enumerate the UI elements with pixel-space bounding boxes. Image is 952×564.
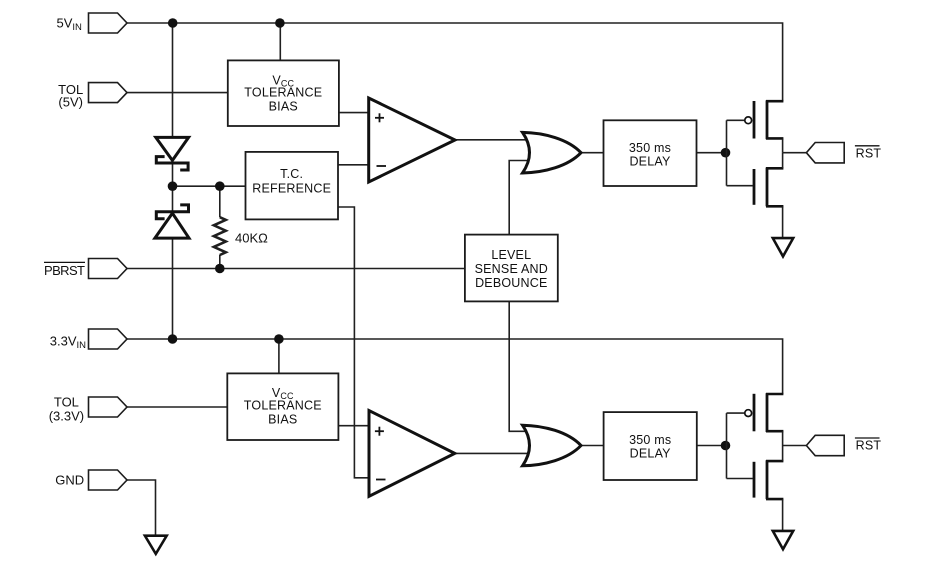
wire resistor top lead (219, 186, 221, 217)
wire vcc bias 2 top feed (278, 339, 280, 373)
resistor 40K zigzag (214, 217, 226, 255)
block B3 level sense and debounce (465, 235, 558, 302)
wire nmos Q2 gate lead (727, 185, 753, 187)
wire delay 1 to gates (697, 152, 728, 154)
svg-text:350 ms: 350 ms (629, 433, 671, 447)
zener diode D2 triangle (155, 213, 189, 238)
ground symbol stage 1 (773, 238, 793, 256)
junction dot gate drive 1 (721, 148, 731, 158)
block B5 Vcc tolerance bias 3.3V (227, 373, 338, 440)
wire resistor bottom lead (219, 255, 221, 269)
or gate G2 (523, 425, 582, 466)
block B1 Vcc tolerance bias 5V (228, 60, 339, 126)
wire pmos Q1 gate lead (727, 119, 745, 121)
input pad 5VIN (89, 13, 128, 33)
comparator A2 (369, 411, 455, 497)
svg-text:SENSE AND: SENSE AND (475, 262, 548, 276)
wire comparator A1 output to OR1 (455, 139, 532, 141)
wire 5V rail (127, 23, 783, 101)
svg-text:PBRST: PBRST (44, 263, 85, 278)
wire node REF to T.C. box (173, 185, 246, 187)
wire PBRST input (127, 268, 465, 270)
wire delay 2 to gates (697, 445, 727, 447)
comparator A2 minus mark (376, 479, 386, 481)
wire nmos Q4 gate lead (727, 478, 753, 480)
svg-text:BIAS: BIAS (269, 99, 298, 113)
wire 3.3V rail (127, 339, 783, 394)
wire zener chain vertical (172, 23, 174, 137)
comparator A1 (369, 98, 455, 182)
wire vcc bias 1 top feed (279, 23, 281, 60)
wire debounce top branch to OR1 (509, 161, 528, 235)
block B2 T.C. reference (246, 152, 339, 220)
wire OR1 to delay 1 (581, 152, 604, 154)
wire RST1 output node (783, 152, 807, 154)
comparator A2 plus mark (375, 427, 384, 436)
wire T.C. reference output 2 (338, 207, 369, 478)
wire RST2 output node (783, 445, 807, 447)
wire zener bottom to 3.3V rail (172, 238, 174, 339)
comparator A1 plus mark (375, 113, 384, 122)
svg-text:BIAS: BIAS (268, 412, 297, 426)
wire zener mid segment (172, 163, 174, 212)
junction dot 3.3V rail left (168, 334, 178, 344)
wire pmos Q1 source lead (766, 137, 783, 140)
output pad RST2 (806, 435, 844, 455)
nmos Q2 gate bar (753, 169, 756, 205)
wire OR2 to delay 2 (581, 445, 604, 447)
or gate G1 (523, 132, 582, 173)
svg-text:RST: RST (856, 146, 882, 160)
junction dot gate drive 2 (721, 441, 731, 451)
wire pmos Q3 source lead (766, 430, 783, 433)
svg-text:DELAY: DELAY (629, 154, 671, 168)
PARTS (89, 13, 845, 554)
junction dot reference node left (168, 181, 178, 191)
svg-text:(3.3V): (3.3V) (49, 408, 84, 423)
wire pmos Q3 gate lead (727, 412, 745, 414)
pmos Q1 channel bar (766, 100, 769, 139)
wire TOL 5V input (127, 92, 228, 94)
ground symbol GND input (145, 536, 167, 554)
junction dot 5V rail bias feed (275, 18, 285, 28)
wire comparator A2 plus input (338, 425, 369, 427)
junction dot 5V rail left (168, 18, 178, 28)
svg-text:LEVEL: LEVEL (491, 248, 531, 262)
wire gate drive vertical 2 (726, 413, 728, 478)
svg-text:TOLERANCE: TOLERANCE (244, 86, 322, 100)
input pad 3.3VIN (89, 329, 128, 349)
nmos Q2 channel bar (766, 168, 769, 207)
svg-text:(5V): (5V) (58, 95, 83, 110)
output pad RST1 (806, 143, 844, 163)
svg-text:TOL: TOL (54, 394, 79, 409)
svg-text:40KΩ: 40KΩ (235, 231, 268, 246)
block B4 350ms delay 1 (604, 120, 697, 186)
pmos Q1 gate bar (753, 101, 756, 139)
wire TOL 3.3V input (127, 406, 227, 408)
svg-text:DELAY: DELAY (630, 446, 672, 460)
zener diode D1 cathode bar (156, 157, 188, 170)
wire comparator A1 minus input (338, 164, 369, 166)
wire debounce bottom branch to OR2 (509, 301, 528, 431)
nmos Q4 channel bar (766, 460, 769, 499)
input pad TOL(3.3V) (89, 397, 128, 417)
input pad GND (89, 470, 128, 490)
junction dot PBRST resistor (215, 264, 225, 274)
zener diode D2 cathode bar (156, 205, 188, 219)
wire nmos Q4 source lead (766, 498, 783, 501)
pmos Q1 gate bubble (745, 117, 752, 124)
comparator A1 minus mark (377, 165, 387, 167)
wire nmos Q4 drain lead (766, 460, 783, 463)
svg-text:RST: RST (856, 439, 882, 453)
wire pmos Q3 drain lead (766, 393, 783, 396)
wire GND input to ground (127, 480, 156, 536)
wire nmos Q2 source lead (766, 205, 783, 208)
wire gate drive vertical 1 (726, 120, 728, 185)
zener diode D1 triangle (156, 137, 189, 160)
pmos Q3 channel bar (766, 393, 769, 432)
block B6 350ms delay 2 (604, 412, 697, 480)
svg-text:DEBOUNCE: DEBOUNCE (475, 276, 547, 290)
svg-text:350 ms: 350 ms (629, 141, 671, 155)
pmos Q3 gate bubble (745, 410, 752, 417)
input pad TOL(5V) (89, 83, 128, 103)
wire comparator A2 output to OR2 (455, 452, 532, 454)
svg-text:REFERENCE: REFERENCE (252, 182, 331, 196)
input pad PBRST (89, 259, 128, 279)
ground symbol stage 2 (773, 531, 793, 549)
wire pmos Q1 drain lead (766, 100, 783, 103)
wire comparator A1 plus input (339, 112, 369, 114)
svg-text:GND: GND (55, 472, 84, 487)
nmos Q4 gate bar (753, 462, 756, 498)
junction dot reference node resistor (215, 181, 225, 191)
svg-text:T.C.: T.C. (280, 167, 303, 181)
junction dot 3.3V rail bias feed (274, 334, 284, 344)
wire nmos Q2 drain lead (766, 167, 783, 170)
pmos Q3 gate bar (753, 394, 756, 432)
svg-text:TOLERANCE: TOLERANCE (244, 398, 322, 412)
